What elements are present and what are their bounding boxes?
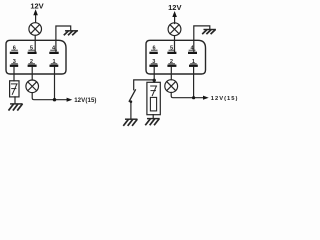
arrowhead 12V(15) (right) — [203, 96, 209, 100]
node 12V supply label (right) — [168, 3, 181, 12]
wire terminal 1 down (left) — [54, 67, 56, 100]
switch pivot dot (right) — [130, 100, 133, 103]
wire terminal 2 to lamp (right) — [170, 67, 172, 80]
terminal 1 bar (right) — [189, 65, 198, 67]
terminal 6 bar (right) — [149, 52, 157, 54]
svg-text:12V: 12V — [30, 1, 43, 10]
junction dot at node (right) — [153, 79, 156, 82]
terminal 6 bar — [10, 52, 18, 54]
terminal 1 number — [52, 59, 55, 65]
terminal 6 number (right) — [152, 45, 155, 51]
wire lamp to 12V(15) line (left) — [32, 93, 67, 100]
wire box 7 to ground (left) — [14, 97, 16, 104]
svg-text:12V: 12V — [168, 3, 181, 12]
terminal 3 underline — [12, 63, 18, 65]
wire terminal 3 down (right) — [153, 67, 155, 82]
terminal 5 number — [30, 45, 33, 51]
terminal 4 number (right) — [190, 45, 194, 51]
arrowhead up to 12V (right) — [172, 11, 177, 17]
lamp L3 top (right) — [168, 23, 181, 36]
terminal 2 underline (right) — [169, 63, 175, 65]
node 12V(15) label (left) — [74, 97, 96, 104]
terminal 3 underline (right) — [151, 63, 157, 65]
terminal 5 underline (right) — [169, 49, 175, 51]
terminal 6 underline — [12, 49, 18, 51]
lamp L1 top (left) — [29, 23, 42, 36]
ground chassis bottom (left) — [9, 104, 22, 110]
wire supply arrow stem (right) — [174, 15, 176, 24]
wire terminal 3 down (left) — [13, 67, 15, 81]
terminal 3 number (right) — [152, 59, 155, 65]
wire lamp to 12V(15) line (right) — [171, 93, 203, 98]
terminal 2 number (right) — [170, 59, 173, 65]
lamp L4 bottom (right) — [165, 80, 178, 93]
relay box (right) — [146, 40, 206, 74]
wire lamp to terminal 5 (left) — [34, 35, 36, 51]
wire switch to ground (right) — [130, 102, 132, 119]
wire terminal 4 riser to ground (right) — [194, 26, 210, 52]
wire terminal 4 riser to ground (left) — [56, 26, 71, 52]
terminal 4 underline (right) — [189, 49, 195, 51]
flasher unit 7 box (left) — [10, 81, 19, 97]
wire lamp to terminal 5 (right) — [174, 36, 176, 52]
label 7 inside box (right) — [151, 86, 157, 96]
wire terminal 2 to lamp (left) — [31, 67, 33, 80]
terminal 3 bar — [10, 65, 18, 67]
terminal 4 bar — [49, 52, 58, 54]
terminal 2 bar (right) — [167, 65, 176, 67]
terminal 5 bar — [28, 52, 37, 54]
arrowhead 12V(15) (left) — [67, 98, 73, 102]
terminal 2 underline — [29, 63, 35, 65]
label 7 inside box (left) — [11, 84, 17, 95]
wire branch to switch (right) — [134, 80, 155, 90]
arrowhead up to 12V (left) — [33, 9, 38, 15]
terminal 6 underline (right) — [151, 49, 157, 51]
switch S1 blade (right) — [129, 90, 135, 101]
terminal 5 number (right) — [170, 45, 173, 51]
node 12V(15) label (right) — [211, 96, 239, 102]
terminal 1 bar — [50, 65, 59, 67]
terminal 6 number — [13, 45, 16, 51]
wire resistor to ground (right) — [152, 115, 154, 118]
terminal 4 bar (right) — [188, 52, 197, 54]
terminal 5 underline — [29, 49, 35, 51]
ground chassis under resistor (right) — [146, 119, 159, 125]
ground chassis top (left) — [64, 31, 77, 35]
ground chassis under switch (right) — [124, 119, 137, 125]
relay box (left) — [6, 40, 66, 74]
svg-text:12V(15): 12V(15) — [74, 97, 96, 104]
terminal 3 number — [13, 59, 16, 65]
wire supply arrow stem (left) — [35, 13, 37, 22]
node 12V supply label (left) — [30, 1, 43, 10]
terminal 1 number (right) — [192, 59, 195, 65]
terminal 2 bar — [28, 65, 37, 67]
ground chassis top (right) — [203, 30, 215, 34]
terminal 4 number — [52, 45, 56, 51]
terminal 4 underline — [51, 49, 57, 51]
terminal 1 underline — [51, 63, 57, 65]
terminal 3 bar (right) — [149, 65, 157, 67]
resistor element rect (right) — [150, 97, 156, 111]
junction dot (right) — [192, 96, 195, 99]
resistor unit 7 box (right) — [147, 82, 160, 114]
junction dot (left) — [53, 98, 56, 101]
terminal 5 bar (right) — [167, 52, 176, 54]
wire terminal 1 down (right) — [193, 67, 195, 98]
lamp L2 bottom (left) — [26, 80, 39, 93]
terminal 2 number — [30, 59, 33, 65]
svg-text:12V(15): 12V(15) — [211, 96, 239, 102]
terminal 1 underline (right) — [191, 63, 197, 65]
